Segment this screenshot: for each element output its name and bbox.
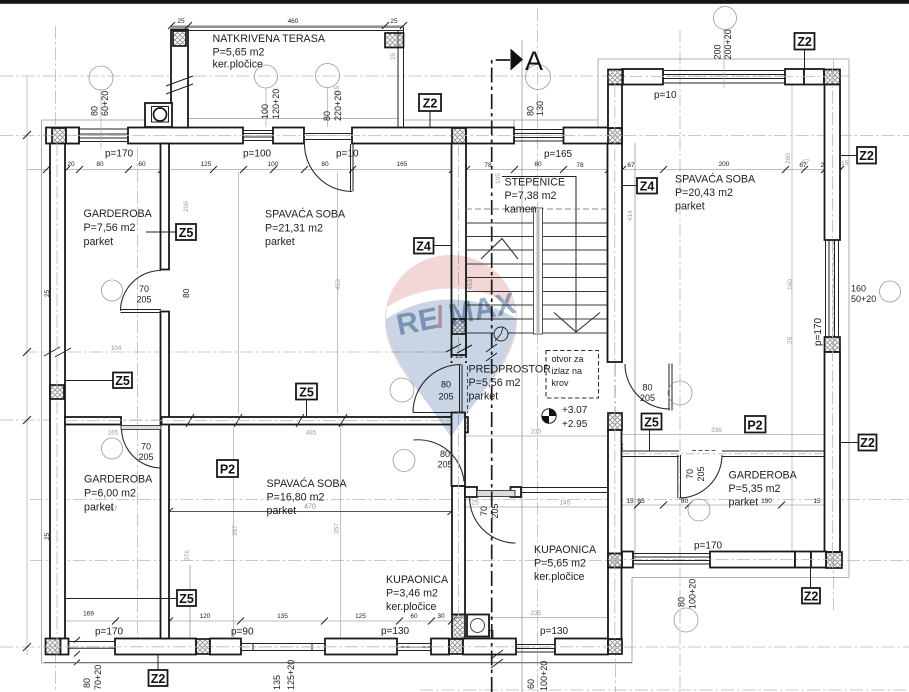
svg-text:145: 145 <box>560 500 571 507</box>
centerline left wall <box>56 143 58 655</box>
svg-text:160: 160 <box>787 279 794 290</box>
small marker on section line <box>490 631 494 639</box>
door garderoba2 leaf <box>121 426 161 430</box>
grid axis horizontal y690 <box>420 689 909 691</box>
chimney inner circle <box>154 108 167 121</box>
bottom wall white pier 210-241 <box>210 639 241 655</box>
svg-text:460: 460 <box>288 18 299 25</box>
hatched pier east wall bottom corner <box>826 552 842 568</box>
bottom window 397-431 <box>397 644 431 651</box>
svg-text:SPAVAĆA SOBA: SPAVAĆA SOBA <box>267 477 348 490</box>
centerline stair west wall <box>458 144 460 639</box>
svg-text:25: 25 <box>177 18 185 25</box>
centerline right wing bottom wall <box>608 559 842 561</box>
door terrace->spavaca leaf <box>351 144 354 192</box>
grid axis vertical x680 <box>679 30 681 692</box>
door predprostor->spavaca open leaf <box>413 412 461 414</box>
svg-text:100: 100 <box>268 161 279 168</box>
svg-text:80: 80 <box>322 111 332 121</box>
svg-text:20: 20 <box>67 161 75 168</box>
centerline top wall <box>46 135 622 137</box>
partition wall garderoba/spavaca x161 <box>161 144 170 270</box>
right wing bottom wall solid 710-795 <box>710 552 795 568</box>
label 80/220+20 <box>322 91 343 121</box>
svg-text:165: 165 <box>108 430 119 437</box>
scan edge black band <box>0 0 909 4</box>
dim line 235 predprostor <box>466 435 607 437</box>
window p=165 top <box>514 130 564 142</box>
svg-text:25: 25 <box>787 336 794 344</box>
svg-text:p=10: p=10 <box>336 149 359 160</box>
svg-text:+2.95: +2.95 <box>562 419 588 430</box>
svg-text:GARDEROBA: GARDEROBA <box>729 470 798 482</box>
right wing top wall white pier 624-663 <box>622 69 663 85</box>
room label spavaca soba right <box>675 173 756 213</box>
door predprostor->spavaca closed leaf <box>460 365 463 413</box>
svg-text:70: 70 <box>139 284 149 294</box>
P2 box right <box>745 416 766 433</box>
svg-text:KUPAONICA: KUPAONICA <box>534 544 597 556</box>
svg-text:P=16,80 m2: P=16,80 m2 <box>267 492 325 504</box>
eave outline right wing top <box>598 58 849 60</box>
dashed header over garderoba door <box>692 450 716 452</box>
svg-text:60: 60 <box>526 679 536 689</box>
hatched pier top-left corner <box>52 128 66 144</box>
Z2 box top right <box>795 33 815 50</box>
terrace door sill p=10 <box>304 134 352 140</box>
circle near garderoba1 door <box>102 280 123 301</box>
svg-text:parket: parket <box>729 497 759 509</box>
svg-text:ker.pločice: ker.pločice <box>534 571 585 583</box>
right wing bottom wall hatched pier left <box>608 554 622 568</box>
grid axis horizontal y419 <box>0 419 465 421</box>
svg-text:80: 80 <box>642 383 652 393</box>
axis circle stem x327 <box>327 88 329 128</box>
svg-text:15: 15 <box>813 498 821 505</box>
right wing top window 663-785 <box>663 71 785 84</box>
room label stepenice <box>505 177 566 216</box>
svg-text:414: 414 <box>627 210 634 221</box>
predprostor dashed edge <box>467 366 469 413</box>
east wall hatched pier below door <box>608 413 622 430</box>
svg-text:Z5: Z5 <box>299 386 314 400</box>
svg-text:P=5,65 m2: P=5,65 m2 <box>534 558 586 570</box>
Z5 left mid leader <box>65 380 113 382</box>
door label 70/205 garderoba535 rotated <box>685 466 706 481</box>
grid axis vertical x537 <box>537 8 539 692</box>
interior wall y417 horizontal <box>65 417 121 425</box>
svg-text:160: 160 <box>851 284 866 294</box>
door predprostor->spavaca2 arc <box>414 440 465 482</box>
svg-text:p=100: p=100 <box>243 149 272 160</box>
door label 80/205 spavaca2 <box>437 449 452 470</box>
svg-text:Z2: Z2 <box>859 149 874 163</box>
terrace left wall <box>171 30 188 128</box>
svg-text:105: 105 <box>495 173 502 184</box>
svg-text:104: 104 <box>111 345 122 352</box>
axis circle stem x725 <box>723 30 725 89</box>
terrace hatched pier top-right <box>385 33 404 48</box>
grid axis vertical x615 <box>615 84 617 692</box>
svg-text:P=21,31 m2: P=21,31 m2 <box>265 223 323 235</box>
svg-text:P=20,43 m2: P=20,43 m2 <box>675 187 733 199</box>
terrace top wall <box>171 27 404 31</box>
right wing east wall upper <box>825 85 841 241</box>
circle below right wing <box>674 608 698 632</box>
hatched pier east wall y337 <box>825 337 841 352</box>
roof exit text <box>552 354 584 388</box>
svg-text:120+20: 120+20 <box>271 89 281 119</box>
door label 80/205 stairhall <box>640 383 655 404</box>
top wall solid 128-243 <box>128 128 243 144</box>
door garderoba1 arc (hinge 161,311) <box>121 271 162 312</box>
svg-text:80: 80 <box>96 161 104 168</box>
svg-text:p=170: p=170 <box>694 541 723 552</box>
svg-text:100: 100 <box>260 104 270 119</box>
dim line 336 garderoba535 <box>622 434 824 436</box>
stair post circle hand <box>495 327 503 341</box>
dim ticks bottom row <box>112 618 455 625</box>
svg-text:80: 80 <box>82 678 92 688</box>
svg-text:80: 80 <box>677 597 687 607</box>
grid axis vertical x137 <box>137 148 139 655</box>
svg-text:70: 70 <box>141 442 151 452</box>
svg-text:80: 80 <box>90 106 100 116</box>
svg-text:P2: P2 <box>747 419 762 433</box>
door stairhall->garderoba arc (hinge 670,364) <box>625 364 670 409</box>
svg-text:453: 453 <box>335 279 342 290</box>
small pier dims 15/50 stair door <box>455 165 625 450</box>
svg-text:otvor za: otvor za <box>552 354 584 364</box>
grid axis vertical x635 <box>634 143 636 560</box>
hatched pier bottom x608 <box>608 639 622 654</box>
bathroom top wall right piece <box>511 487 522 497</box>
label 100/120+20 <box>260 89 281 119</box>
svg-text:KUPAONICA: KUPAONICA <box>386 574 449 586</box>
top wall segment left sliver <box>46 128 79 144</box>
bottom outer line y662.5 <box>44 662 632 664</box>
right wing bottom white pier 795-811 <box>795 552 811 568</box>
svg-text:Z5: Z5 <box>179 226 194 240</box>
Z2 right upper leader <box>841 155 858 157</box>
svg-text:p=170: p=170 <box>813 317 824 346</box>
hatched pier bottom x196 <box>196 639 210 654</box>
entry canopy verticals <box>514 120 598 128</box>
svg-text:80: 80 <box>681 498 689 505</box>
door label 80/205 predprostor1 <box>438 380 453 402</box>
Z5 box left mid <box>113 373 132 389</box>
svg-text:p=170: p=170 <box>95 627 124 638</box>
svg-text:485: 485 <box>306 430 317 437</box>
svg-text:205: 205 <box>640 393 655 403</box>
svg-text:p=170: p=170 <box>105 149 134 160</box>
svg-text:25: 25 <box>390 18 398 25</box>
watermark remax balloon <box>385 255 517 437</box>
label 135/125+20 bottom <box>272 660 296 690</box>
hatched pier bathroom divider bottom <box>452 615 465 639</box>
door label 70/205 garderoba1 <box>136 284 151 305</box>
bottom wall solid 431-449 <box>431 639 449 655</box>
grid axis horizontal y352 <box>25 351 455 353</box>
east wall 567-639 <box>608 568 622 640</box>
room label predprostor <box>469 364 552 403</box>
svg-text:30: 30 <box>437 613 445 620</box>
svg-text:Z2: Z2 <box>860 436 875 450</box>
bottom wall solid 325-397 <box>325 639 397 655</box>
white pier bottom-left <box>61 639 69 655</box>
room label garderoba 535 <box>729 470 798 509</box>
axis circle stem x101 <box>100 90 102 149</box>
hatched pier bottom x449 <box>449 639 463 654</box>
bottom window 516-555 <box>516 645 555 653</box>
svg-text:P=7,56 m2: P=7,56 m2 <box>84 222 136 234</box>
label 60/100+20 bottom <box>526 661 549 691</box>
svg-text:Z2: Z2 <box>797 35 812 49</box>
svg-text:205: 205 <box>138 452 153 462</box>
svg-text:60: 60 <box>138 161 146 168</box>
svg-text:135: 135 <box>277 613 288 620</box>
east wall hatched pier y553 <box>608 554 622 568</box>
dim line vertical x238 <box>238 172 240 414</box>
right wing top wall white pier 785-804 <box>785 69 804 85</box>
svg-text:70: 70 <box>479 506 489 516</box>
door stairhall->garderoba leaf <box>669 364 672 411</box>
grid axis horizontal y647 <box>0 646 909 648</box>
terrace ticks <box>168 22 407 29</box>
ticks at window left <box>74 637 80 665</box>
roof exit dashed box <box>546 351 599 399</box>
centerline east wall x615 <box>614 84 616 639</box>
stair post circle <box>494 327 508 341</box>
Z2 bottom left leader <box>157 655 159 670</box>
grid axis vertical x792 dim line <box>791 84 793 567</box>
svg-text:260: 260 <box>785 153 792 164</box>
left exterior wall <box>50 144 65 639</box>
svg-text:200: 200 <box>713 44 723 59</box>
svg-text:65: 65 <box>637 498 645 505</box>
hatched pier top wall x452 <box>452 128 466 144</box>
eave outline step right of bathroom <box>631 578 633 664</box>
svg-text:235: 235 <box>531 610 542 617</box>
dim numbers right wing <box>626 498 821 505</box>
right wing interior wall y451 <box>622 451 825 457</box>
window p=100 top <box>243 131 273 141</box>
circle near garderoba535 door <box>688 499 710 521</box>
svg-text:kamen: kamen <box>505 204 537 216</box>
right wing east window y240-337 <box>825 240 841 337</box>
label 160 50+20 right <box>851 284 876 305</box>
terrace wall break marks <box>166 76 193 94</box>
terrace hatched pier top-left <box>173 31 186 46</box>
right wing bottom solid 811-826 <box>811 552 826 568</box>
axis circle x266 <box>255 65 278 88</box>
dim line bottom y621 <box>65 620 460 622</box>
door terrace->spavaca arc <box>305 144 353 192</box>
svg-text:80: 80 <box>181 288 191 298</box>
dim ticks right wing <box>634 502 785 509</box>
Z4 box left <box>414 238 434 254</box>
room label natkrivena terasa <box>213 33 326 71</box>
room label spavaca soba2 <box>267 477 348 517</box>
svg-text:ker.pločice: ker.pločice <box>386 601 437 613</box>
hatched pier stair west wall <box>452 319 466 334</box>
svg-text:Z2: Z2 <box>804 590 819 604</box>
hatched pier bottom-left corner <box>46 639 61 655</box>
eave outline right wing left <box>597 59 599 120</box>
stair west wall x451.5 <box>452 144 467 356</box>
eave outline main block bottom <box>42 662 633 664</box>
svg-text:205: 205 <box>136 295 151 305</box>
svg-text:235: 235 <box>531 429 542 436</box>
svg-text:parket: parket <box>84 502 114 514</box>
door predprostor->spavaca arc <box>413 365 461 413</box>
svg-text:SPAVAĆA SOBA: SPAVAĆA SOBA <box>265 208 346 221</box>
room label garderoba2 <box>84 474 153 514</box>
axis circle x725 top <box>714 7 737 30</box>
wall centerline dashes overlay <box>44 69 842 655</box>
dim line vertical x340 with 357 <box>340 428 342 638</box>
stair headroom dashed line <box>466 208 607 210</box>
stair east wall x607.5 upper <box>608 144 623 363</box>
svg-text:125+20: 125+20 <box>286 660 296 690</box>
Z4 box right <box>637 178 657 194</box>
circle near stairhall door <box>668 381 692 405</box>
svg-text:p=90: p=90 <box>231 627 254 638</box>
dim line vertical x233 with 357 <box>233 428 235 638</box>
svg-text:Z4: Z4 <box>416 240 431 254</box>
eave outline right wing right <box>848 59 850 578</box>
terrace top dim row <box>171 25 403 27</box>
stair west wall break marks <box>446 344 472 353</box>
dim line right wing y505 <box>622 504 824 506</box>
svg-text:A: A <box>525 46 543 76</box>
centerline right wall x833 <box>832 69 834 568</box>
svg-text:ker.pločice: ker.pločice <box>213 59 264 71</box>
room label kupaonica 565 <box>534 544 597 583</box>
Z5 center leader <box>306 400 308 418</box>
svg-text:165: 165 <box>397 161 408 168</box>
centerline interior wall y420 <box>65 420 452 422</box>
hatched pier right wing top-right <box>824 70 840 85</box>
left wall break marks <box>44 347 71 357</box>
Z5 box garderoba1 leader <box>146 231 176 233</box>
dim line 235 kupaonica <box>466 617 607 619</box>
Z2 box top center <box>419 94 441 111</box>
svg-text:15: 15 <box>626 498 634 505</box>
svg-text:67: 67 <box>802 159 810 166</box>
svg-text:Z5: Z5 <box>644 416 659 430</box>
right wing top wall solid 804-824 <box>804 69 824 85</box>
axis circle x327 <box>316 64 340 88</box>
svg-text:NATKRIVENA TERASA: NATKRIVENA TERASA <box>213 33 326 45</box>
svg-text:50+20: 50+20 <box>851 294 876 304</box>
stair down arrow chevron <box>554 313 600 333</box>
svg-text:60: 60 <box>410 613 418 620</box>
svg-text:SPAVAĆA SOBA: SPAVAĆA SOBA <box>675 173 756 186</box>
bottom low window 241-325 <box>241 644 325 651</box>
door garderoba2 arc (hinge 161.5,428) <box>122 428 162 468</box>
dim ticks top row <box>43 166 844 173</box>
svg-text:376: 376 <box>184 550 191 561</box>
label 80/60+20 <box>90 91 111 116</box>
right wing left wall 84-128 <box>608 85 622 129</box>
svg-text:P=3,46 m2: P=3,46 m2 <box>386 588 438 600</box>
circle right wall window <box>880 281 901 302</box>
svg-text:parket: parket <box>84 236 114 248</box>
svg-text:GARDEROBA: GARDEROBA <box>84 208 153 220</box>
svg-text:80: 80 <box>534 161 542 168</box>
label 80/130 <box>526 101 546 116</box>
top wall solid 352-466 <box>352 128 466 144</box>
svg-text:Z2: Z2 <box>423 97 438 111</box>
label 200/200+20 <box>713 29 734 59</box>
label 80/100+20 right wing <box>677 579 698 609</box>
svg-text:200+20: 200+20 <box>723 29 733 59</box>
right wing east wall lower <box>825 352 841 552</box>
dim numbers bottom row <box>83 611 462 621</box>
svg-text:p=165: p=165 <box>544 149 573 160</box>
section line ticks bottom <box>491 650 503 668</box>
svg-text:100+20: 100+20 <box>539 661 549 691</box>
svg-text:80: 80 <box>526 106 536 116</box>
svg-text:80: 80 <box>440 449 450 459</box>
Z2 right mid leader <box>841 442 859 444</box>
svg-text:P=5,65 m2: P=5,65 m2 <box>213 47 265 59</box>
svg-text:190: 190 <box>761 498 772 505</box>
svg-text:STEPENICE: STEPENICE <box>505 177 566 189</box>
svg-text:100+20: 100+20 <box>688 579 698 609</box>
circle near garderoba2 door <box>102 438 123 459</box>
stair up arrow chevron <box>481 239 518 260</box>
top wall white pier 466-514 <box>466 128 514 144</box>
bathroom divider wall x452 <box>452 486 465 615</box>
eave outline main block top <box>42 119 599 121</box>
svg-text:70+20: 70+20 <box>93 665 103 690</box>
Z5 right wing leader <box>649 430 651 452</box>
Z5 bottom left leader <box>65 598 177 600</box>
door garderoba535 arc (hinge 679,455) <box>679 455 722 498</box>
grid axis vertical x522 <box>521 40 523 692</box>
svg-text:Z2: Z2 <box>151 672 166 686</box>
bathroom top wall left piece <box>465 487 477 497</box>
door garderoba535 leaf <box>678 455 681 498</box>
Z2 box bottom left <box>149 670 168 686</box>
ticks on y417 wall <box>186 414 347 427</box>
svg-text:169: 169 <box>83 611 94 618</box>
left outer dim line x27 <box>26 76 28 655</box>
bottom wall window left 68-115 <box>69 642 116 649</box>
svg-text:p=10: p=10 <box>654 90 677 101</box>
dim line under top wall <box>27 169 842 171</box>
grid axis vertical x55 left wall <box>55 26 57 690</box>
bottom wall white pier 463-516 <box>463 639 516 655</box>
watermark remax text <box>394 287 519 343</box>
svg-text:+3.07: +3.07 <box>562 405 588 416</box>
circle near predprostor door <box>390 378 414 402</box>
svg-text:78: 78 <box>576 162 584 169</box>
bottom wall solid 115-196 <box>115 639 196 655</box>
dim ticks on x27 <box>23 131 31 651</box>
svg-text:Z4: Z4 <box>640 180 655 194</box>
P2 box left <box>217 460 238 477</box>
svg-text:120: 120 <box>200 613 211 620</box>
svg-text:15: 15 <box>841 160 849 167</box>
kupaonica fixture box <box>467 615 489 637</box>
room label kupaonica 346 <box>386 574 449 613</box>
predprostor west wall stub dashed <box>452 345 467 363</box>
top wall solid 273-304 <box>273 128 304 144</box>
hatched pier right wing top-left <box>608 70 623 85</box>
